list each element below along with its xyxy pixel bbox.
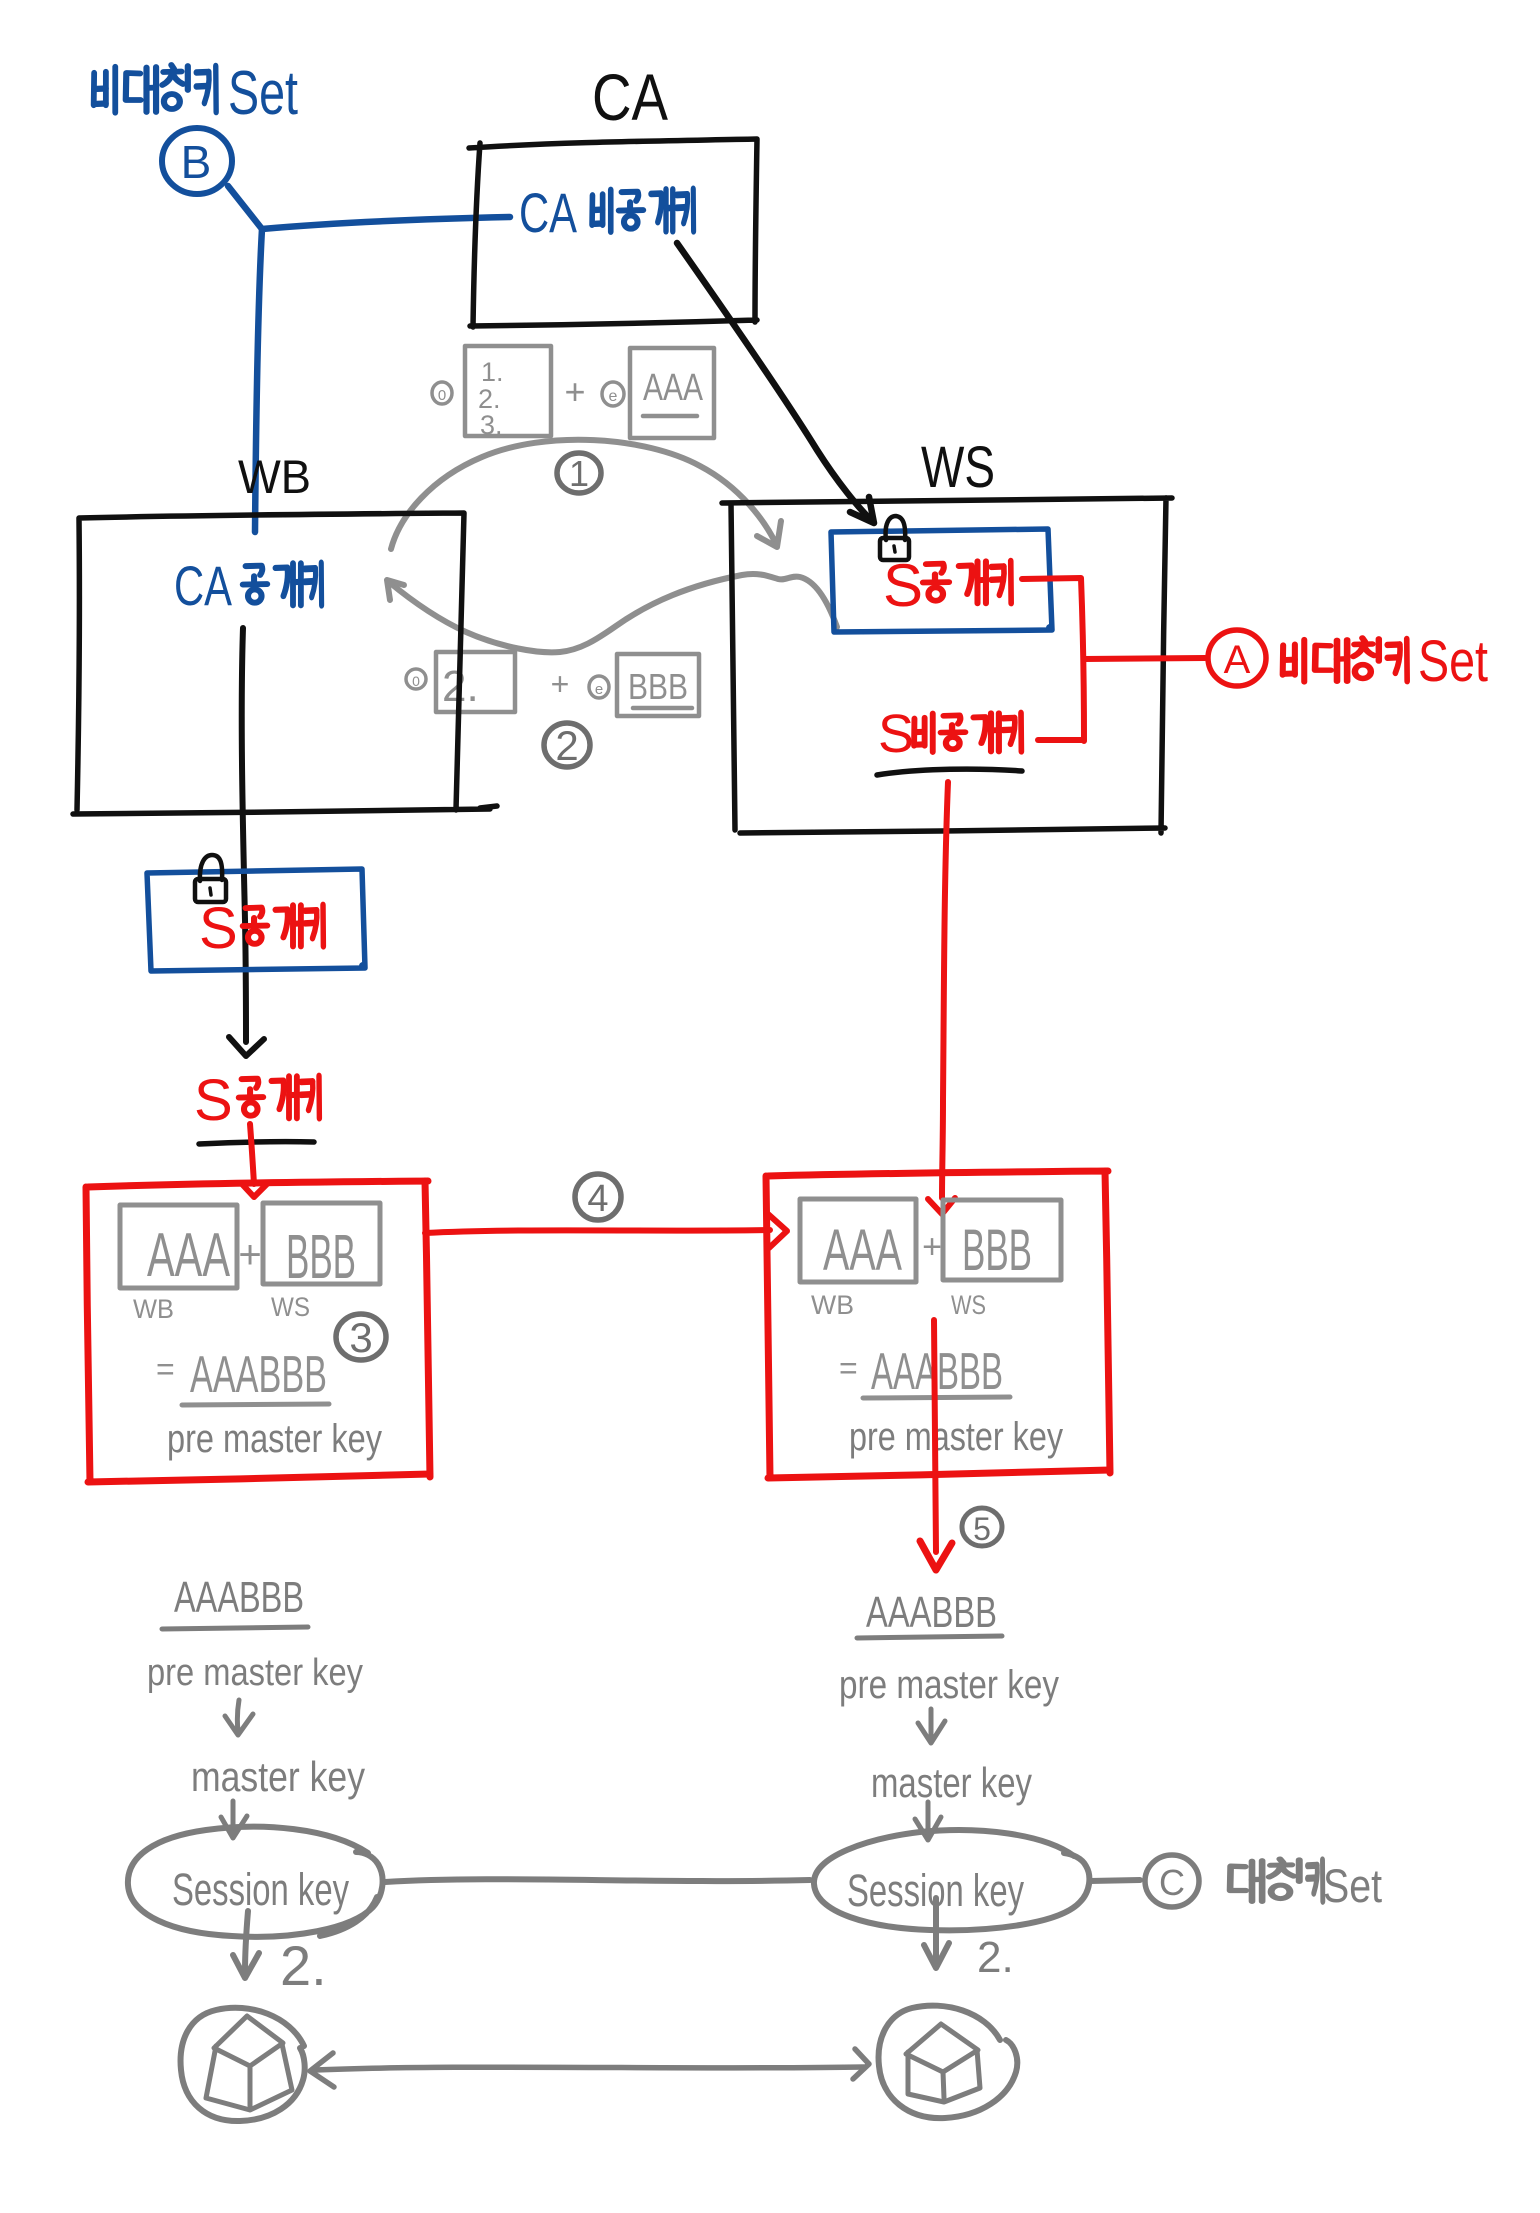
svg-text:Set: Set: [1323, 1859, 1382, 1912]
svg-text:AAA: AAA: [147, 1221, 230, 1290]
svg-text:A: A: [1224, 638, 1251, 682]
svg-text:+: +: [551, 666, 570, 702]
svg-text:CA: CA: [174, 554, 232, 617]
svg-text:e: e: [609, 388, 618, 405]
svg-text:3.: 3.: [480, 410, 503, 440]
svg-text:C: C: [1159, 1862, 1185, 1903]
svg-text:0: 0: [438, 387, 446, 404]
svg-text:Set: Set: [1418, 629, 1488, 694]
svg-text:WB: WB: [133, 1294, 174, 1324]
svg-text:1: 1: [569, 453, 589, 494]
svg-text:master key: master key: [191, 1753, 365, 1800]
svg-text:1.: 1.: [481, 357, 504, 387]
svg-text:e: e: [595, 681, 603, 698]
svg-text:2.: 2.: [280, 1934, 327, 1997]
svg-text:pre master key: pre master key: [849, 1415, 1063, 1459]
svg-text:0: 0: [412, 673, 420, 689]
svg-text:WS: WS: [271, 1292, 310, 1322]
svg-text:2: 2: [555, 722, 578, 769]
svg-text:AAA: AAA: [823, 1218, 902, 1283]
svg-text:WS: WS: [921, 435, 995, 500]
svg-text:=: =: [839, 1350, 858, 1386]
svg-text:+: +: [238, 1233, 261, 1277]
svg-text:+: +: [922, 1228, 942, 1266]
svg-text:BBB: BBB: [962, 1218, 1032, 1283]
svg-text:AAABBB: AAABBB: [174, 1573, 304, 1622]
svg-text:+: +: [564, 371, 585, 412]
svg-text:4: 4: [587, 1178, 608, 1220]
svg-text:WB: WB: [811, 1290, 854, 1320]
svg-text:WB: WB: [238, 450, 311, 503]
svg-text:BBB: BBB: [286, 1223, 356, 1292]
svg-text:=: =: [156, 1351, 175, 1387]
svg-text:Session key: Session key: [172, 1864, 349, 1915]
svg-text:AAA: AAA: [643, 367, 704, 409]
svg-text:BBB: BBB: [628, 666, 688, 707]
svg-text:S: S: [199, 896, 238, 961]
svg-text:AAABBB: AAABBB: [190, 1346, 327, 1404]
svg-text:pre master key: pre master key: [147, 1652, 363, 1694]
svg-text:CA: CA: [592, 60, 668, 134]
svg-text:Set: Set: [228, 59, 298, 128]
svg-text:AAABBB: AAABBB: [866, 1588, 997, 1637]
svg-text:5: 5: [973, 1511, 991, 1547]
svg-text:S: S: [883, 552, 923, 619]
svg-text:pre master key: pre master key: [839, 1663, 1059, 1707]
svg-text:pre master key: pre master key: [167, 1417, 382, 1461]
svg-text:B: B: [181, 136, 212, 188]
svg-text:3: 3: [349, 1314, 372, 1361]
svg-text:CA: CA: [519, 181, 577, 244]
svg-text:WS: WS: [951, 1290, 986, 1320]
svg-text:master key: master key: [871, 1759, 1032, 1806]
svg-text:2.: 2.: [977, 1933, 1014, 1982]
svg-text:S: S: [878, 704, 914, 764]
svg-text:S: S: [194, 1068, 233, 1133]
